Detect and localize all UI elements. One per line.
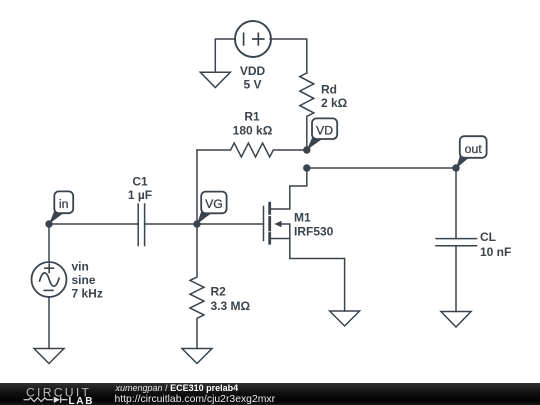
svg-text:180 kΩ: 180 kΩ (233, 123, 273, 137)
svg-text:3.3 MΩ: 3.3 MΩ (211, 299, 251, 313)
svg-text:xumengpan / ECE310 prelab4: xumengpan / ECE310 prelab4 (115, 383, 239, 393)
svg-text:VG: VG (205, 197, 223, 211)
svg-text:sine: sine (72, 273, 96, 287)
svg-text:10 nF: 10 nF (480, 245, 511, 259)
svg-text:http://circuitlab.com/cju2r3ex: http://circuitlab.com/cju2r3exg2mxr (115, 394, 276, 405)
svg-text:7 kHz: 7 kHz (72, 287, 103, 301)
svg-text:R2: R2 (211, 285, 227, 299)
svg-text:LAB: LAB (69, 396, 95, 405)
svg-text:IRF530: IRF530 (294, 225, 334, 239)
svg-text:M1: M1 (294, 210, 311, 224)
svg-text:CL: CL (480, 230, 496, 244)
svg-text:vin: vin (72, 259, 89, 273)
svg-text:2 kΩ: 2 kΩ (321, 96, 348, 110)
svg-text:in: in (59, 197, 69, 211)
svg-text:C1: C1 (132, 174, 148, 188)
svg-text:out: out (465, 142, 483, 156)
svg-text:R1: R1 (244, 109, 260, 123)
svg-text:VDD: VDD (240, 64, 266, 78)
svg-text:VD: VD (316, 123, 333, 137)
svg-text:1 µF: 1 µF (128, 188, 152, 202)
svg-text:5 V: 5 V (243, 78, 261, 92)
svg-text:Rd: Rd (321, 83, 337, 97)
